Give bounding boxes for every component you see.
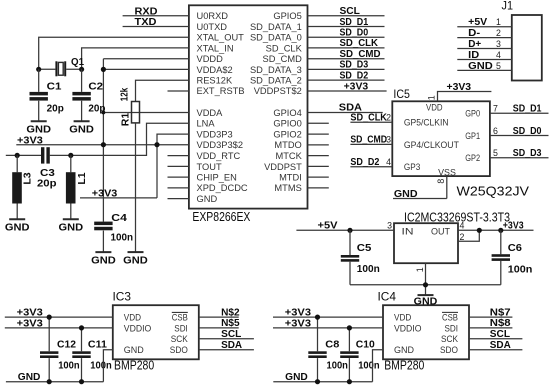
wire VDDA$2 [103, 68, 188, 70]
wire regulator OUT to +3V3 [458, 229, 534, 231]
wire net SD_D1 from ESP [308, 26, 385, 28]
svg-text:C2: C2 [88, 81, 103, 92]
wire +3V3 to IC4 VDD [273, 316, 383, 318]
svg-text:VDD: VDD [394, 313, 412, 323]
junction +3V3 node B [154, 142, 159, 147]
svg-text:GPIO2: GPIO2 [273, 130, 301, 140]
wire GPIO0 stub [308, 122, 329, 124]
svg-text:SDI: SDI [445, 323, 459, 333]
svg-text:LNA: LNA [197, 119, 216, 129]
capacitor C2 [81, 69, 83, 121]
svg-text:GND: GND [18, 372, 41, 383]
wire VDD_RTC stub [168, 155, 189, 157]
svg-text:GPIO0: GPIO0 [273, 119, 301, 129]
wire LNA net to pin [50, 123, 189, 155]
wire MTMS stub [308, 187, 329, 189]
wire regulator ground rail [350, 284, 501, 286]
capacitor C4 plates [94, 222, 112, 231]
svg-text:U0TXD: U0TXD [197, 22, 228, 32]
svg-text:N$5: N$5 [221, 318, 240, 329]
capacitor C3 plates [41, 147, 50, 163]
capacitor C12 [48, 317, 50, 382]
svg-text:20p: 20p [47, 103, 64, 114]
svg-text:SD_D3: SD_D3 [513, 148, 542, 159]
IC U5 W25Q32JV body [392, 101, 490, 177]
svg-text:SDO: SDO [170, 345, 188, 355]
wire IC5 VSS down [446, 176, 448, 198]
svg-text:GND: GND [394, 345, 414, 355]
svg-text:100n: 100n [358, 361, 379, 372]
svg-text:100n: 100n [90, 361, 111, 372]
svg-text:+5V: +5V [318, 221, 338, 232]
svg-text:R1: R1 [120, 112, 131, 126]
svg-text:GND: GND [394, 189, 418, 200]
svg-text:SD_D2: SD_D2 [350, 157, 379, 168]
IC IC3 BMP280 body [113, 305, 199, 359]
wire net SD_D0 from ESP [308, 36, 385, 38]
junction C11 top tap [79, 325, 84, 330]
wire VDDD [103, 58, 188, 60]
wire XTAL_IN to crystal [82, 48, 189, 69]
ground GND of L1 [59, 219, 84, 233]
svg-text:VDDPST: VDDPST [264, 162, 302, 172]
svg-text:OUT: OUT [431, 226, 450, 236]
junction L1 tap [68, 153, 73, 158]
svg-text:5: 5 [493, 148, 498, 158]
svg-text:+5V: +5V [468, 17, 487, 28]
wire U0TXD to net TXD [123, 26, 189, 28]
wire ground rail IC4 [273, 381, 372, 383]
svg-text:RXD: RXD [135, 6, 158, 17]
junction C8 top tap [315, 315, 320, 320]
resistor R1 [132, 102, 140, 123]
wire IC5 GND label wire [393, 198, 447, 200]
svg-text:3: 3 [496, 39, 501, 49]
svg-text:GND: GND [124, 345, 144, 355]
wire net +3V3 from ESP [308, 90, 387, 92]
svg-text:100n: 100n [508, 264, 533, 275]
wire IC5 pin 2 net SD_CLK [350, 121, 392, 123]
wire J1 pin 4 ID [457, 59, 512, 61]
svg-text:GND: GND [5, 223, 30, 234]
wire +3V3 row to VDD3P3$2 [16, 144, 189, 146]
junction ground rail node [423, 282, 428, 287]
svg-text:VDD: VDD [426, 102, 443, 112]
wire regulator GND pin down [425, 263, 427, 295]
IC2 MC33269ST regulator body [394, 223, 458, 263]
svg-text:20p: 20p [88, 103, 105, 114]
svg-text:MTDI: MTDI [279, 173, 302, 183]
capacitor C6 plates [492, 254, 510, 261]
svg-text:C12: C12 [57, 339, 76, 350]
wire +3V3 vertical to C4 [102, 59, 104, 222]
wire MTCK stub [308, 155, 329, 157]
ground GND of L3 [5, 219, 30, 233]
svg-text:SD_CMD: SD_CMD [350, 135, 387, 146]
wire IC3 GND pin hook [103, 350, 112, 382]
svg-text:+3V3: +3V3 [17, 318, 44, 329]
svg-text:N$2: N$2 [221, 307, 240, 318]
wire J1 pin 5 GND [457, 69, 512, 71]
wire LNA net left segment [6, 154, 41, 156]
wire net N$8 from IC4 [469, 327, 512, 329]
junction C10 top tap [347, 325, 352, 330]
svg-text:SD_D2: SD_D2 [340, 70, 369, 81]
junction C5 tap [347, 228, 352, 233]
svg-text:CHIP_EN: CHIP_EN [197, 173, 237, 183]
svg-text:+3V3: +3V3 [92, 188, 118, 199]
inductor L1 [66, 155, 76, 219]
svg-text:SDO: SDO [440, 345, 458, 355]
svg-text:ID: ID [468, 50, 479, 61]
svg-text:SD_DATA_0: SD_DATA_0 [250, 33, 302, 43]
wire CHIP_EN stub [168, 176, 189, 178]
wire J1 pin 3 D+ [457, 48, 512, 50]
inductor L3 [12, 155, 22, 219]
capacitor C10 [348, 328, 350, 382]
svg-text:GND: GND [468, 61, 493, 72]
svg-text:BMP280: BMP280 [114, 359, 154, 373]
wire MTDI stub [308, 176, 329, 178]
svg-text:SD_D0: SD_D0 [340, 28, 369, 39]
svg-text:1: 1 [415, 267, 425, 272]
wire IC5 pin 4 net SD_D2 [350, 166, 392, 168]
svg-text:W25Q32JV: W25Q32JV [457, 184, 530, 198]
svg-text:GND: GND [91, 255, 116, 266]
svg-text:SD_CMD: SD_CMD [263, 54, 303, 64]
ground GND of R1 [123, 252, 148, 266]
svg-text:MTDO: MTDO [274, 140, 301, 150]
wire net SCL from IC4 [469, 338, 522, 340]
svg-text:1: 1 [427, 95, 437, 100]
wire U0RXD to net RXD [123, 15, 189, 17]
svg-text:4: 4 [460, 221, 465, 231]
capacitor C8 [317, 317, 319, 382]
svg-text:+3V3: +3V3 [17, 308, 44, 319]
svg-text:VDD_RTC: VDD_RTC [197, 151, 241, 161]
junction C6 tap [498, 228, 503, 233]
svg-text:100n: 100n [111, 232, 134, 243]
svg-text:20p: 20p [37, 178, 57, 189]
svg-text:GP0: GP0 [465, 109, 480, 119]
wire IC5 pin 3 net SD_CMD [350, 143, 392, 145]
junction C11 bottom [79, 379, 84, 384]
wire MTDO stub [308, 144, 329, 146]
svg-text:EXT_RSTB: EXT_RSTB [197, 86, 245, 96]
junction pin2 node [477, 228, 482, 233]
svg-text:SCK: SCK [171, 334, 189, 344]
svg-text:VDD3P3: VDD3P3 [197, 130, 233, 140]
junction L3 tap [15, 153, 20, 158]
svg-text:+3V3: +3V3 [17, 135, 43, 146]
svg-text:D+: D+ [468, 39, 481, 50]
svg-text:D-: D- [468, 28, 480, 39]
IC U1 EXP8266EX body [189, 5, 308, 208]
svg-text:IC2MC33269ST-3.3T3: IC2MC33269ST-3.3T3 [404, 210, 510, 224]
wire IC5 VDD to +3V3 [438, 92, 492, 102]
svg-text:SD_DATA_2: SD_DATA_2 [250, 76, 302, 86]
wire pin 2 loop [458, 230, 479, 241]
svg-text:GP4/CLKOUT: GP4/CLKOUT [404, 140, 459, 150]
svg-text:XTAL_IN: XTAL_IN [197, 43, 234, 53]
svg-text:L1: L1 [77, 172, 88, 185]
svg-text:N$8: N$8 [490, 318, 511, 329]
wire net N$7 from IC4 [469, 316, 512, 318]
svg-text:GND: GND [59, 223, 84, 234]
svg-text:8: 8 [436, 179, 446, 184]
svg-text:RES12K: RES12K [197, 76, 233, 86]
svg-text:SD_CLK: SD_CLK [350, 113, 387, 124]
svg-text:2: 2 [496, 28, 501, 38]
svg-text:N$7: N$7 [490, 307, 511, 318]
svg-text:U0RXD: U0RXD [197, 11, 229, 21]
svg-text:SD_CLK: SD_CLK [266, 43, 303, 53]
svg-text:VDDA: VDDA [197, 108, 224, 118]
junction C8 bottom [315, 379, 320, 384]
svg-text:5: 5 [496, 61, 501, 71]
capacitor C10 plates [340, 351, 358, 358]
svg-text:SDA: SDA [221, 340, 242, 351]
svg-text:+3V3: +3V3 [285, 318, 312, 329]
svg-text:+3V3: +3V3 [285, 308, 312, 319]
wire +3V3 label wire [80, 197, 157, 199]
capacitor C11 plates [72, 351, 90, 358]
IC IC4 BMP280 body [383, 305, 469, 359]
capacitor C1 [38, 69, 40, 121]
capacitor C5 [349, 230, 351, 284]
svg-text:GND: GND [69, 125, 94, 136]
junction VDDA$2 node [101, 67, 106, 72]
capacitor C4 [102, 231, 104, 253]
capacitor C5 plates [341, 255, 359, 262]
wire net N$2 from IC3 [199, 316, 239, 318]
svg-text:EXP8266EX: EXP8266EX [192, 210, 251, 224]
svg-text:2: 2 [460, 232, 465, 242]
svg-text:100n: 100n [327, 361, 348, 372]
svg-text:VDDD: VDDD [197, 54, 224, 64]
capacitor C11 [81, 328, 83, 382]
svg-text:BMP280: BMP280 [384, 359, 424, 373]
svg-text:SD_DATA_1: SD_DATA_1 [250, 22, 302, 32]
svg-text:SD_D0: SD_D0 [513, 126, 542, 137]
wire +3V3 drop [156, 145, 158, 198]
svg-text:C6: C6 [508, 243, 523, 254]
connector J1 body [512, 15, 542, 81]
svg-text:C10: C10 [356, 339, 375, 350]
junction +3V3 node A [101, 142, 106, 147]
wire IC5 pin 7 net SD_D1 [490, 112, 549, 114]
svg-text:XPD_DCDC: XPD_DCDC [197, 183, 248, 193]
capacitor C12 plates [40, 351, 58, 358]
svg-text:C4: C4 [111, 213, 127, 224]
svg-text:SD_D3: SD_D3 [340, 60, 369, 71]
wire IC4 GND pin hook [373, 350, 384, 382]
svg-text:SDA: SDA [490, 340, 511, 351]
svg-text:GND: GND [123, 255, 148, 266]
capacitor C6 [500, 230, 502, 284]
wire net SD_CLK from ESP [308, 47, 385, 49]
wire R1 to ground [135, 123, 137, 252]
svg-text:CSB: CSB [442, 313, 458, 323]
svg-text:3: 3 [386, 135, 391, 145]
svg-text:VDDA$2: VDDA$2 [197, 65, 233, 75]
wire net SCL from ESP [308, 15, 385, 17]
svg-text:GP5/CLKIN: GP5/CLKIN [404, 118, 449, 128]
wire net SD_D3 from ESP [308, 68, 385, 70]
wire RES12K to R1 [136, 80, 189, 101]
wire XTAL_OUT to crystal [39, 37, 189, 69]
wire XPD_DCDC stub [168, 187, 189, 189]
svg-text:L3: L3 [23, 172, 34, 185]
svg-text:+3V3: +3V3 [503, 221, 524, 232]
ground GND of C2 [69, 121, 94, 135]
svg-text:6: 6 [493, 126, 498, 136]
wire net SDA from IC3 [199, 349, 254, 351]
capacitor C1 plates [30, 92, 48, 101]
svg-text:TOUT: TOUT [197, 162, 222, 172]
wire net SD_CMD from ESP [308, 58, 385, 60]
svg-text:GND: GND [285, 372, 308, 383]
crystal Q1 [39, 61, 82, 76]
svg-text:2: 2 [386, 113, 391, 123]
wire net SDA from GPIO4 [308, 112, 383, 114]
svg-text:C11: C11 [88, 339, 107, 350]
wire TOUT stub [168, 165, 189, 167]
svg-text:SD_CMD: SD_CMD [340, 49, 381, 60]
wire J1 pin 2 D- [457, 37, 512, 39]
svg-text:Q1: Q1 [71, 57, 84, 68]
wire IC5 pin 5 net SD_D3 [490, 157, 549, 159]
svg-text:+3V3: +3V3 [344, 81, 369, 92]
svg-text:GND: GND [26, 125, 51, 136]
svg-text:7: 7 [493, 104, 498, 114]
wire +3V3 to IC3 VDDIO [5, 327, 113, 329]
svg-text:100n: 100n [58, 361, 79, 372]
svg-text:IC5: IC5 [393, 89, 410, 101]
svg-text:VDD: VDD [124, 313, 142, 323]
wire net SCL from IC3 [199, 338, 254, 340]
svg-text:IC3: IC3 [113, 292, 132, 304]
svg-text:1: 1 [496, 17, 501, 27]
svg-text:SCK: SCK [441, 334, 459, 344]
junction C12 bottom [47, 379, 52, 384]
svg-text:GPIO5: GPIO5 [273, 11, 301, 21]
svg-text:SD_DATA_3: SD_DATA_3 [250, 65, 302, 75]
svg-text:TXD: TXD [135, 17, 157, 28]
svg-text:C5: C5 [357, 243, 372, 254]
svg-text:SDI: SDI [174, 323, 188, 333]
svg-text:12k: 12k [119, 87, 130, 101]
junction VDDA node [102, 111, 106, 115]
svg-text:VDDIO: VDDIO [124, 323, 152, 333]
wire net SDA from IC4 [469, 349, 522, 351]
svg-text:MTCK: MTCK [275, 151, 302, 161]
svg-text:GPIO4: GPIO4 [273, 108, 301, 118]
wire GND stub [168, 198, 189, 200]
capacitor C2 plates [72, 92, 90, 101]
capacitor C8 plates [308, 351, 326, 358]
svg-text:SCL: SCL [340, 6, 360, 17]
svg-text:SCL: SCL [490, 329, 510, 340]
svg-text:GP2: GP2 [465, 153, 480, 163]
svg-text:C8: C8 [325, 339, 339, 350]
svg-text:+3V3: +3V3 [447, 82, 472, 93]
svg-text:VDDIO: VDDIO [394, 323, 422, 333]
junction crystal left node [36, 67, 41, 72]
svg-text:C1: C1 [47, 81, 62, 92]
wire VDD3P3 step [157, 134, 189, 145]
svg-text:SD_D1: SD_D1 [513, 104, 542, 115]
wire +3V3 to IC3 VDD [5, 316, 113, 318]
svg-text:SD_D1: SD_D1 [340, 17, 369, 28]
ground GND of C1 [26, 121, 51, 135]
wire VDDPST stub [308, 165, 329, 167]
svg-text:VDDPST$2: VDDPST$2 [254, 86, 302, 96]
wire EXT_RSTB stub [168, 90, 189, 92]
wire +5V into regulator IN [296, 229, 394, 231]
svg-text:IC4: IC4 [378, 292, 397, 304]
svg-text:3: 3 [387, 221, 392, 231]
wire VDDA [103, 112, 188, 114]
svg-text:4: 4 [386, 157, 391, 167]
wire net SD_D2 from ESP [308, 79, 385, 81]
wire net N$5 from IC3 [199, 327, 239, 329]
wire IC5 pin 6 net SD_D0 [490, 135, 549, 137]
ground GND of C4 [91, 252, 116, 266]
svg-text:IN: IN [402, 226, 414, 236]
svg-text:SCL: SCL [221, 329, 241, 340]
svg-text:J1: J1 [502, 1, 514, 13]
wire GPIO2 stub [308, 133, 329, 135]
svg-text:XTAL_OUT: XTAL_OUT [197, 33, 245, 43]
svg-text:CSB: CSB [172, 313, 188, 323]
junction C12 top tap [47, 315, 52, 320]
wire ground rail IC3 [6, 381, 104, 383]
svg-text:VSS: VSS [438, 167, 456, 177]
svg-text:GND: GND [197, 194, 218, 204]
wire J1 pin 1 +5V [457, 26, 512, 28]
svg-text:SD_CLK: SD_CLK [340, 38, 379, 49]
svg-text:GP1: GP1 [465, 131, 480, 141]
svg-text:100n: 100n [357, 264, 380, 275]
svg-text:4: 4 [496, 50, 501, 60]
junction crystal right node [79, 67, 84, 72]
ground GND of regulator [414, 295, 438, 307]
wire +3V3 to IC4 VDDIO [273, 327, 383, 329]
svg-text:MTMS: MTMS [274, 183, 301, 193]
junction C10 bottom [347, 379, 352, 384]
svg-text:GP3: GP3 [404, 162, 420, 172]
svg-text:VDD3P3$2: VDD3P3$2 [197, 140, 244, 150]
